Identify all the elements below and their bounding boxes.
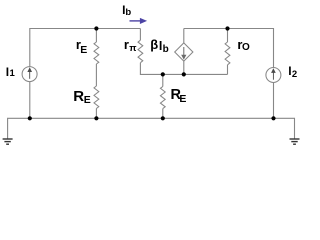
wire RE bottom [95, 109, 97, 119]
wire top-right net [184, 29, 274, 68]
wire RE2 branch [162, 74, 164, 86]
ground right [290, 139, 300, 144]
resistor rpi zigzag [138, 40, 143, 63]
I1 arrow up [28, 68, 31, 79]
wire bottom rail [8, 118, 295, 138]
resistor RE left zigzag [94, 86, 99, 109]
label I1 [6, 66, 9, 78]
resistor rE zigzag [94, 42, 99, 64]
junction dot bottom I1 [28, 116, 32, 120]
label I2 [288, 65, 291, 77]
wire I2 bottom [273, 82, 275, 118]
ground left [3, 139, 13, 144]
current source I1 circle [22, 67, 37, 82]
label rE [76, 38, 81, 51]
wire rpi bottom to mid rail [140, 63, 227, 75]
wire RE2 bottom [162, 109, 164, 119]
wire rpi branch top [139, 29, 141, 41]
junction dot bottom I2 [271, 116, 275, 120]
wire rE to RE [95, 64, 97, 86]
I2 arrow up [272, 69, 275, 80]
wire top-left net [30, 29, 141, 67]
junction dot bottom RE2 [161, 116, 165, 120]
resistor rO zigzag [225, 42, 230, 65]
junction dot bottom RE [94, 116, 98, 120]
junction dot mid RE2 [161, 72, 165, 76]
current source I2 circle [266, 68, 281, 83]
dependent source beta-Ib diamond [175, 43, 193, 61]
label beta-Ib [150, 38, 158, 51]
wire rE branch [95, 29, 97, 43]
label rpi [124, 38, 129, 51]
label Ib [122, 4, 125, 16]
label RE left [73, 89, 84, 104]
junction dot mid diamond [182, 72, 186, 76]
label rO [237, 38, 242, 51]
wire rO branch top [227, 29, 229, 43]
label RE right [171, 88, 181, 103]
wire rO bottom [227, 65, 229, 75]
wire I1 bottom [29, 81, 31, 118]
junction dot top rO [225, 26, 229, 30]
junction dot top rE [94, 26, 98, 30]
Ib current arrow [130, 19, 146, 23]
resistor RE right zigzag [160, 87, 165, 109]
beta-Ib arrow down [182, 47, 186, 59]
wire diamond stubs [183, 29, 185, 75]
